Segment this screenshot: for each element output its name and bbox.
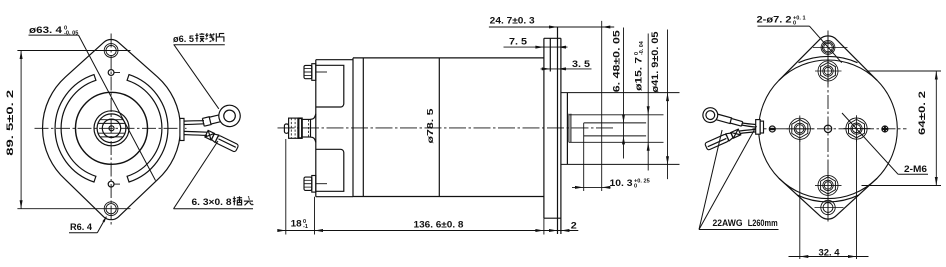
svg-text:0: 0 bbox=[634, 183, 637, 189]
right view ring wire bbox=[742, 123, 756, 125]
right view center hole bbox=[824, 125, 831, 132]
svg-text:ø78. 5: ø78. 5 bbox=[425, 108, 435, 143]
left view right arc slot bbox=[127, 75, 168, 182]
motor body bbox=[353, 58, 544, 197]
left view hub chords bbox=[98, 122, 125, 124]
top ear outline bbox=[779, 36, 877, 80]
dim 64 bbox=[867, 70, 941, 72]
left small hole bbox=[769, 126, 775, 132]
body seam bbox=[438, 58, 440, 197]
svg-text:2: 2 bbox=[571, 221, 577, 232]
right view spade wire bbox=[740, 129, 756, 131]
svg-text:6. 48±0. 05: 6. 48±0. 05 bbox=[611, 30, 621, 92]
svg-text:-1: -1 bbox=[303, 224, 308, 230]
svg-text:R6. 4: R6. 4 bbox=[70, 222, 93, 233]
middle view centerline bbox=[278, 127, 614, 129]
right view horizontal centerline bbox=[753, 128, 907, 130]
svg-text:89. 5±0. 2: 89. 5±0. 2 bbox=[5, 90, 16, 156]
right view spade terminal bbox=[705, 128, 742, 150]
bottom ear outline bbox=[779, 178, 877, 219]
right view wire boss bbox=[756, 120, 761, 135]
dim 89.5 line bbox=[20, 51, 22, 209]
svg-text:0: 0 bbox=[793, 20, 796, 26]
svg-text:ø6. 5: ø6. 5 bbox=[173, 34, 195, 45]
ear base arc bottom bbox=[797, 195, 859, 202]
top ear hole bbox=[821, 41, 835, 55]
right view vertical centerline bbox=[827, 31, 829, 224]
through bolt bottom bbox=[304, 177, 312, 190]
left view center circle bbox=[109, 126, 114, 131]
through bolt top bbox=[304, 65, 312, 78]
bottom dim extension lines bbox=[285, 139, 287, 235]
left view small hole bottom bbox=[108, 181, 114, 187]
right small hole bbox=[882, 126, 888, 132]
svg-text:7. 5: 7. 5 bbox=[509, 37, 528, 48]
svg-text:22AWG: 22AWG bbox=[713, 218, 743, 228]
left view small hole top bbox=[108, 70, 114, 76]
svg-text:136. 6±0. 8: 136. 6±0. 8 bbox=[414, 220, 464, 231]
svg-text:ø15. 7: ø15. 7 bbox=[634, 57, 644, 91]
svg-text:6. 3×0. 8: 6. 3×0. 8 bbox=[192, 197, 232, 208]
svg-text:ø41. 9±0. 05: ø41. 9±0. 05 bbox=[650, 31, 660, 92]
left view horizontal centerline bbox=[35, 127, 187, 129]
dim 89.5 extension lines bbox=[17, 50, 130, 52]
svg-text:3. 5: 3. 5 bbox=[572, 59, 591, 70]
svg-text:24. 7±0. 3: 24. 7±0. 3 bbox=[490, 15, 535, 26]
svg-text:L260mm: L260mm bbox=[748, 218, 778, 228]
right view main circle bbox=[759, 60, 898, 199]
bottom M6 bolt bbox=[818, 175, 838, 195]
left M6 socket bolt bbox=[789, 118, 810, 139]
left view lower wire bbox=[184, 130, 207, 133]
stub nut bbox=[289, 118, 298, 138]
left view spade terminal bbox=[205, 130, 239, 152]
left view face circle bbox=[76, 92, 148, 164]
end bell bottom notch bbox=[316, 149, 344, 191]
left view upper wire bbox=[184, 120, 204, 122]
end bell top notch bbox=[316, 65, 344, 107]
ear base arc top bbox=[799, 56, 858, 62]
top M6 bolt bbox=[818, 61, 838, 81]
left view flange outline bbox=[43, 40, 181, 220]
svg-text:2-M6: 2-M6 bbox=[904, 164, 927, 175]
right view ring terminal bbox=[701, 106, 744, 131]
shaft flat bbox=[584, 122, 646, 124]
left view wire boss bbox=[180, 118, 184, 140]
left view bottom ear hole bbox=[104, 202, 118, 216]
stub block2 bbox=[302, 119, 310, 137]
svg-text:ø63. 4: ø63. 4 bbox=[29, 25, 63, 36]
shaft bbox=[568, 114, 570, 143]
left view top ear hole bbox=[104, 44, 118, 58]
flange plate bbox=[543, 38, 545, 218]
left view ring terminal bbox=[201, 103, 243, 133]
bottom dim line bbox=[278, 230, 579, 232]
left view vertical centerline bbox=[110, 34, 112, 226]
svg-text:-0. 04: -0. 04 bbox=[639, 41, 645, 55]
svg-text:18: 18 bbox=[291, 219, 302, 230]
svg-text:32. 4: 32. 4 bbox=[819, 248, 841, 259]
svg-text:10. 3: 10. 3 bbox=[610, 178, 633, 189]
bottom ear hole bbox=[821, 200, 835, 214]
stub fillet bbox=[311, 114, 316, 119]
left view left arc slot bbox=[55, 75, 96, 182]
left view hub rings bbox=[94, 111, 129, 146]
svg-text:2-ø7. 2: 2-ø7. 2 bbox=[757, 15, 792, 26]
svg-text:64±0. 2: 64±0. 2 bbox=[917, 91, 928, 135]
left end bell bbox=[315, 60, 317, 197]
dim 32.4 bbox=[799, 140, 801, 260]
stub lock ring bbox=[299, 118, 302, 138]
stub cap bbox=[284, 124, 288, 133]
rear hub bbox=[561, 92, 680, 94]
right M6 socket bolt bbox=[846, 118, 867, 139]
left view shaft circle bbox=[102, 119, 120, 137]
